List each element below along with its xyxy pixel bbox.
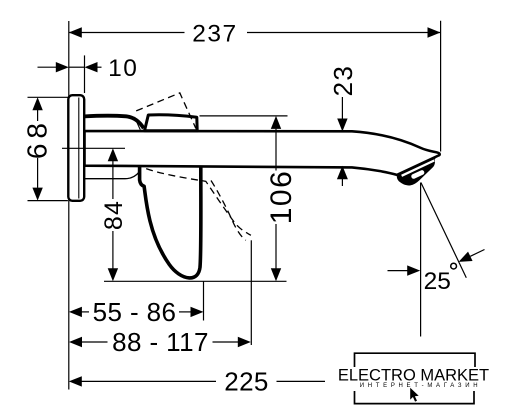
svg-text:10: 10 [108,55,138,82]
svg-text:84: 84 [100,200,128,230]
svg-text:25: 25 [424,268,451,295]
svg-text:237: 237 [192,21,237,48]
svg-text:88 - 117: 88 - 117 [112,327,209,357]
svg-text:55 - 86: 55 - 86 [93,297,177,327]
svg-text:106: 106 [265,170,298,225]
svg-text:ИНТЕРНЕТ-МАГАЗИН: ИНТЕРНЕТ-МАГАЗИН [360,383,482,389]
svg-text:68: 68 [22,118,53,159]
svg-text:23: 23 [328,65,358,97]
svg-text:225: 225 [224,366,269,396]
